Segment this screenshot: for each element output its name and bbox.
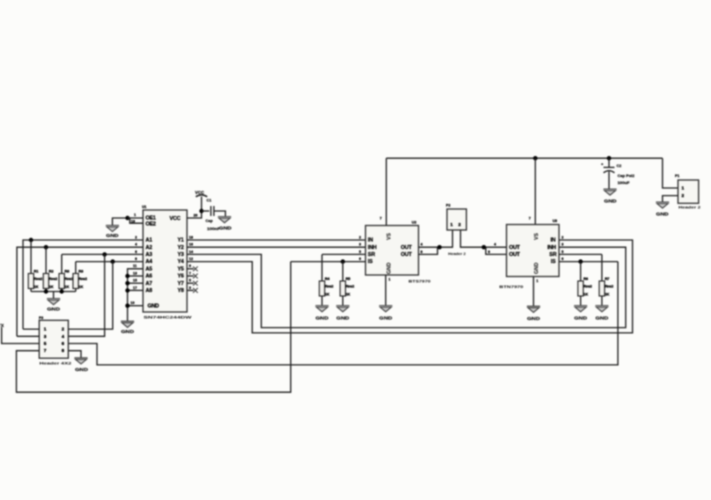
- svg-text:C2: C2: [617, 164, 622, 168]
- svg-text:IS: IS: [368, 259, 373, 265]
- svg-text:3: 3: [189, 286, 191, 290]
- header P1: [675, 174, 701, 210]
- svg-text:Header 4X2: Header 4X2: [39, 361, 71, 365]
- driver U2 BTS7970: [366, 220, 431, 283]
- node A6: [125, 274, 129, 278]
- svg-text:GND: GND: [106, 233, 119, 238]
- svg-text:12: 12: [189, 257, 193, 261]
- svg-text:1: 1: [682, 186, 685, 191]
- IC U1 SN74HC244DW: [142, 205, 192, 320]
- svg-text:5: 5: [562, 250, 564, 254]
- svg-text:4: 4: [62, 334, 65, 339]
- wire P3 pin2 to A4: [68, 262, 112, 330]
- driver U3 BTN7970: [499, 219, 559, 289]
- wire Y2 to U2 INH: [187, 246, 366, 248]
- svg-text:GND: GND: [148, 303, 160, 309]
- svg-text:4: 4: [421, 243, 423, 247]
- svg-text:8: 8: [421, 250, 423, 254]
- svg-text:BTS7970: BTS7970: [409, 280, 431, 284]
- svg-text:R2: R2: [49, 270, 54, 274]
- wire A1 net: [23, 240, 143, 329]
- svg-text:OUT: OUT: [401, 245, 413, 251]
- svg-text:A6: A6: [146, 274, 153, 280]
- svg-text:IS: IS: [551, 259, 556, 265]
- wire P3 pin7 to U2 IS: [16, 262, 290, 393]
- ground R6: [574, 306, 587, 312]
- svg-text:6: 6: [562, 257, 564, 261]
- svg-text:SR: SR: [368, 252, 375, 258]
- svg-text:GND: GND: [595, 315, 608, 320]
- svg-text:Y5: Y5: [178, 266, 184, 272]
- node VCC-C1: [199, 209, 203, 213]
- svg-text:GND: GND: [336, 315, 349, 320]
- svg-text:U1: U1: [142, 205, 147, 209]
- svg-text:13: 13: [133, 271, 137, 275]
- svg-text:P3: P3: [39, 316, 43, 320]
- svg-text:2: 2: [135, 235, 137, 239]
- node rail R2: [44, 289, 48, 293]
- ground U3: [527, 306, 540, 312]
- header P2: [446, 204, 466, 256]
- capacitor C1: [202, 199, 226, 231]
- svg-text:Res2: Res2: [49, 277, 58, 281]
- svg-text:Y8: Y8: [178, 288, 184, 294]
- svg-text:Res2: Res2: [65, 277, 74, 281]
- svg-text:7: 7: [189, 271, 191, 275]
- ground R4: [315, 306, 328, 312]
- node A2-R2: [44, 245, 48, 249]
- svg-text:5: 5: [359, 250, 361, 254]
- svg-text:8: 8: [488, 250, 490, 254]
- svg-text:14: 14: [189, 250, 193, 254]
- svg-text:5: 5: [44, 341, 47, 346]
- wire A7 stub: [128, 282, 144, 284]
- capacitor C2: [601, 158, 635, 189]
- wire P3 pin6 to U3 IS: [68, 262, 618, 365]
- svg-text:GND: GND: [219, 226, 232, 231]
- svg-text:A7: A7: [146, 281, 153, 287]
- wire Y5 stub no-connect: [187, 268, 194, 270]
- svg-text:7: 7: [529, 217, 531, 221]
- node A1-R1: [29, 238, 33, 242]
- wire U3 VS riser: [534, 158, 536, 224]
- svg-text:SN74HC244DW: SN74HC244DW: [144, 315, 192, 320]
- wire U2 VS riser: [385, 158, 387, 225]
- svg-text:2: 2: [62, 327, 65, 332]
- svg-text:P2: P2: [446, 204, 450, 208]
- ground P1: [656, 202, 669, 208]
- wire U3 SR to R7: [559, 253, 602, 255]
- svg-text:1K: 1K: [79, 285, 84, 289]
- svg-text:1K: 1K: [49, 285, 54, 289]
- svg-text:INH: INH: [368, 245, 377, 251]
- svg-text:7: 7: [380, 217, 382, 221]
- svg-text:4: 4: [494, 243, 496, 247]
- node junction rail-C2: [607, 156, 611, 160]
- svg-text:2: 2: [359, 235, 361, 239]
- svg-text:IN: IN: [368, 238, 373, 244]
- wire Y4 to U3 IN: [187, 240, 633, 333]
- svg-text:6: 6: [62, 341, 65, 346]
- svg-text:P1: P1: [675, 174, 679, 178]
- wire resistor common rail: [31, 292, 76, 299]
- svg-text:GND: GND: [656, 211, 669, 216]
- wire U2 GND pin: [385, 275, 387, 305]
- svg-text:1K: 1K: [346, 293, 351, 297]
- svg-text:Res2: Res2: [346, 285, 355, 289]
- svg-text:R7: R7: [605, 277, 610, 281]
- node GND pin: [125, 304, 129, 308]
- svg-text:15: 15: [133, 279, 137, 283]
- svg-text:SR: SR: [549, 252, 556, 258]
- ground P3 pin8: [74, 358, 87, 364]
- wire U1 GND pin 10: [128, 305, 144, 307]
- node U2 OUT: [437, 245, 441, 249]
- svg-text:Header 2: Header 2: [679, 206, 701, 210]
- wire Y3 to U3 INH: [187, 247, 626, 327]
- svg-text:GND: GND: [379, 315, 392, 320]
- svg-text:1K: 1K: [325, 293, 330, 297]
- svg-text:Res2: Res2: [583, 285, 592, 289]
- node A8: [125, 288, 129, 292]
- svg-text:Res2: Res2: [325, 285, 334, 289]
- ground C1: [218, 217, 231, 223]
- svg-text:8: 8: [135, 257, 137, 261]
- svg-text:GND: GND: [527, 316, 540, 321]
- svg-text:BTN7970: BTN7970: [499, 285, 523, 289]
- svg-text:Res2: Res2: [34, 277, 43, 281]
- svg-text:Res2: Res2: [79, 277, 88, 281]
- wire U3 IS net: [559, 261, 618, 263]
- wire U2 IS net: [291, 261, 366, 263]
- svg-text:3: 3: [359, 243, 361, 247]
- svg-text:OUT: OUT: [509, 252, 521, 258]
- svg-text:1K: 1K: [605, 293, 610, 297]
- wire Y6 stub no-connect: [187, 275, 194, 277]
- resistor R5: [340, 262, 354, 306]
- svg-text:19: 19: [131, 219, 135, 223]
- wire rail to P1 pin1: [663, 158, 679, 188]
- svg-text:1K: 1K: [34, 285, 39, 289]
- wire P3 pin8 to ground: [68, 351, 81, 358]
- resistor R6: [578, 262, 592, 306]
- svg-text:A8: A8: [146, 288, 153, 294]
- svg-text:18: 18: [189, 235, 193, 239]
- svg-text:5: 5: [189, 279, 191, 283]
- wire U2 SR to R4: [322, 253, 366, 255]
- resistor R2: [43, 247, 57, 291]
- svg-text:U2: U2: [412, 220, 417, 224]
- svg-text:TX: TX: [0, 323, 4, 328]
- svg-text:GND: GND: [121, 329, 134, 334]
- svg-text:8: 8: [62, 348, 65, 353]
- svg-text:R8: R8: [65, 270, 70, 274]
- svg-text:VCC: VCC: [195, 190, 204, 195]
- wire A5-A8 ground tie: [128, 269, 144, 321]
- wire A3 net: [62, 253, 143, 255]
- svg-text:VS: VS: [534, 233, 540, 240]
- wire U1 VCC pin 20: [187, 197, 202, 218]
- svg-text:C1: C1: [207, 199, 212, 203]
- svg-text:GND: GND: [316, 315, 329, 320]
- resistor R7: [599, 254, 613, 305]
- svg-text:Y6: Y6: [178, 274, 184, 280]
- wire P1 pin2 to ground: [663, 196, 679, 202]
- svg-text:+: +: [601, 162, 604, 167]
- svg-text:11: 11: [133, 264, 137, 268]
- wire P3 pin1: [23, 328, 39, 330]
- wire U3 GND pin: [533, 277, 535, 307]
- svg-text:A2: A2: [146, 245, 153, 251]
- svg-text:Y1: Y1: [178, 238, 184, 244]
- svg-text:7: 7: [44, 348, 47, 353]
- wire P3 pin4 to A3: [68, 254, 104, 336]
- wire P3 pin3: [17, 335, 39, 337]
- ground U1 OE: [106, 225, 119, 231]
- svg-text:2: 2: [562, 235, 564, 239]
- svg-text:GND: GND: [75, 367, 88, 372]
- svg-text:6: 6: [359, 257, 361, 261]
- svg-text:20: 20: [194, 213, 198, 217]
- svg-text:Cap Pol2: Cap Pol2: [618, 174, 635, 178]
- svg-text:1: 1: [450, 222, 453, 227]
- svg-text:VS: VS: [387, 233, 393, 240]
- svg-text:A5: A5: [146, 266, 153, 272]
- svg-text:OUT: OUT: [401, 252, 413, 258]
- node A3-P3pin4: [102, 252, 106, 256]
- svg-text:R4: R4: [325, 277, 331, 281]
- node IS-R6: [578, 259, 582, 263]
- svg-text:OUT: OUT: [509, 245, 521, 251]
- svg-text:R1: R1: [34, 270, 39, 274]
- svg-text:OE2: OE2: [146, 221, 156, 227]
- wire A6 stub: [128, 275, 144, 277]
- svg-text:Res2: Res2: [605, 285, 614, 289]
- svg-text:4: 4: [135, 243, 137, 247]
- svg-text:1: 1: [44, 327, 47, 332]
- svg-text:GND: GND: [534, 262, 540, 274]
- wire P3 pin5 to net label: [2, 327, 40, 343]
- node U3 OUT: [482, 245, 486, 249]
- svg-text:1: 1: [536, 279, 538, 283]
- svg-text:VCC: VCC: [170, 216, 181, 222]
- resistor R4: [319, 254, 333, 305]
- svg-text:R6: R6: [583, 277, 588, 281]
- svg-text:A4: A4: [146, 259, 153, 265]
- svg-text:6: 6: [135, 250, 137, 254]
- node OE tie: [125, 216, 129, 220]
- svg-text:1K: 1K: [583, 293, 588, 297]
- ground resistor rail: [47, 299, 60, 305]
- svg-text:INH: INH: [547, 245, 556, 251]
- svg-text:1: 1: [134, 213, 136, 217]
- svg-text:Cap: Cap: [206, 219, 214, 223]
- wire U2 OUT pins tie: [419, 230, 453, 254]
- svg-text:16: 16: [189, 243, 193, 247]
- node IS-R5: [341, 259, 345, 263]
- svg-text:2: 2: [682, 193, 685, 198]
- wire A8 stub: [128, 289, 144, 291]
- svg-text:U3: U3: [553, 219, 558, 223]
- svg-text:Y4: Y4: [178, 259, 184, 265]
- resistor R3: [73, 262, 87, 292]
- svg-text:Y3: Y3: [178, 252, 184, 258]
- ground R7: [595, 306, 608, 312]
- svg-text:R5: R5: [346, 277, 351, 281]
- ground U1: [121, 321, 134, 327]
- wire Y7 stub no-connect: [187, 282, 194, 284]
- svg-text:3: 3: [44, 334, 47, 339]
- header P3: [39, 316, 72, 365]
- wire VS power rail: [386, 157, 662, 159]
- ground R5: [336, 306, 349, 312]
- svg-text:1: 1: [389, 278, 391, 282]
- power port VCC: [195, 190, 207, 197]
- svg-text:Y7: Y7: [178, 281, 184, 287]
- node rail R8: [60, 289, 64, 293]
- svg-text:IN: IN: [551, 238, 556, 244]
- svg-text:17: 17: [133, 286, 137, 290]
- svg-text:1K: 1K: [65, 285, 70, 289]
- svg-text:A3: A3: [146, 252, 153, 258]
- svg-text:GND: GND: [574, 315, 587, 320]
- wire A2 net: [17, 247, 143, 336]
- svg-text:10: 10: [131, 301, 135, 305]
- wire P2 pin2 to U3 OUT: [461, 230, 507, 254]
- svg-text:GND: GND: [604, 198, 617, 203]
- svg-text:100uF: 100uF: [618, 181, 631, 185]
- svg-text:Y2: Y2: [178, 245, 184, 251]
- svg-text:3: 3: [562, 243, 564, 247]
- ground below C2: [603, 189, 616, 195]
- svg-text:2: 2: [458, 222, 461, 227]
- svg-text:Header 2: Header 2: [448, 252, 466, 256]
- wire U1 OE1 to ground: [112, 218, 143, 225]
- svg-text:GND: GND: [47, 306, 60, 311]
- svg-text:R3: R3: [79, 270, 84, 274]
- node junction rail-U3: [533, 156, 537, 160]
- node A7: [125, 281, 129, 285]
- svg-text:9: 9: [189, 264, 191, 268]
- wire A4 net: [76, 261, 143, 263]
- svg-text:A1: A1: [146, 238, 153, 244]
- resistor R8: [59, 254, 73, 291]
- svg-text:GND: GND: [387, 262, 393, 274]
- node A4-P3pin2: [111, 259, 115, 263]
- wire Y8 stub no-connect: [187, 289, 194, 291]
- wire Y1 to U2 IN: [187, 239, 366, 241]
- wire OE2 tie: [128, 218, 144, 223]
- resistor R1: [28, 240, 42, 292]
- ground U2: [379, 306, 392, 312]
